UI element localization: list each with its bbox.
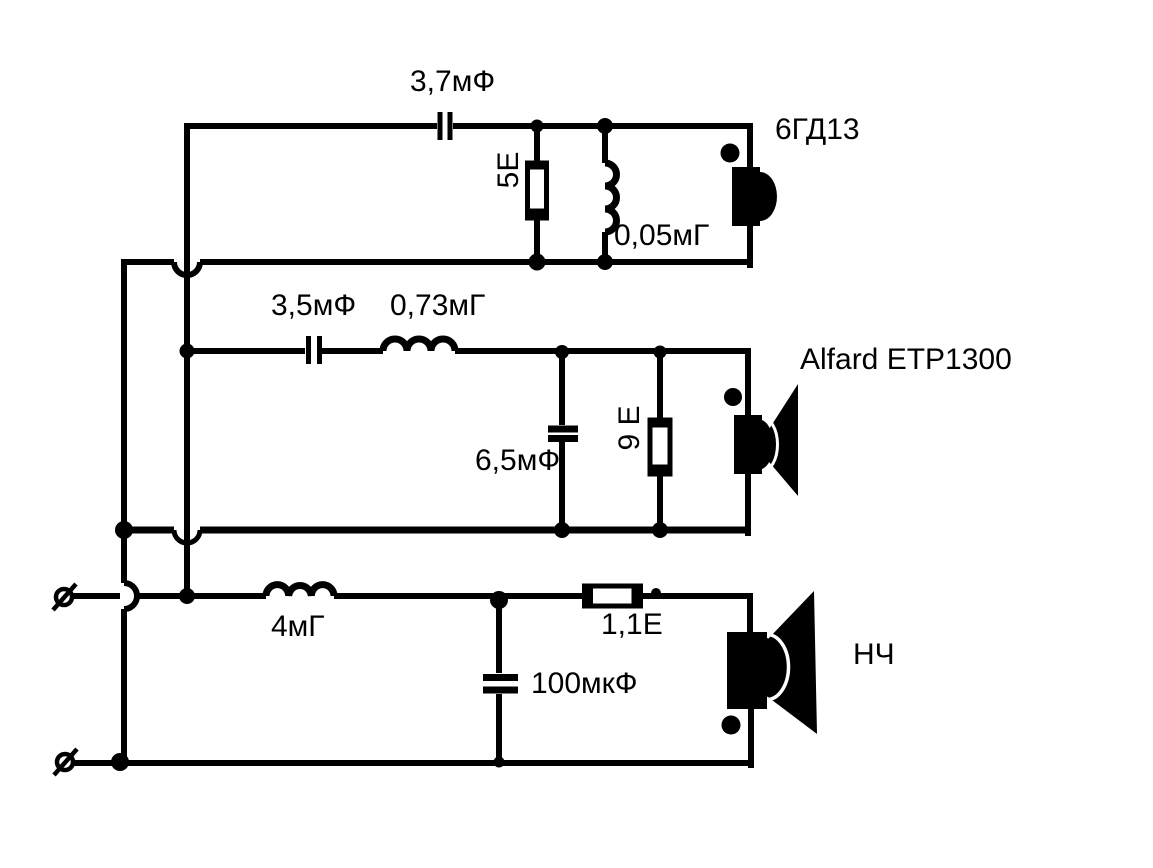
svg-text:5Е: 5Е <box>492 152 525 189</box>
svg-text:3,5мФ: 3,5мФ <box>271 289 356 322</box>
svg-text:4мГ: 4мГ <box>271 610 325 643</box>
svg-text:0,73мГ: 0,73мГ <box>390 289 485 322</box>
svg-text:6ГД13: 6ГД13 <box>775 113 860 146</box>
svg-text:1,1Е: 1,1Е <box>601 608 663 641</box>
svg-text:0,05мГ: 0,05мГ <box>614 219 709 252</box>
svg-text:Alfard ETP1300: Alfard ETP1300 <box>800 343 1012 376</box>
svg-text:3,7мФ: 3,7мФ <box>410 65 495 98</box>
svg-text:100мкФ: 100мкФ <box>531 667 638 700</box>
svg-text:НЧ: НЧ <box>853 638 895 671</box>
svg-text:6,5мФ: 6,5мФ <box>475 444 560 477</box>
svg-text:9 Е: 9 Е <box>613 405 646 450</box>
